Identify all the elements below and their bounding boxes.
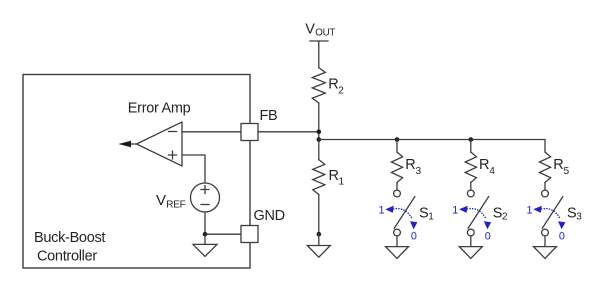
node bus junction: [317, 137, 322, 142]
wire S3 to ground: [544, 236, 546, 247]
wire R2 to FB node: [318, 103, 320, 160]
svg-text:S: S: [567, 205, 576, 221]
ground under S3: [534, 247, 557, 259]
voltage source VREF: [191, 183, 220, 212]
node branch R3: [395, 137, 400, 142]
pin FB: [241, 124, 258, 141]
pin GND: [241, 226, 258, 243]
op-amp output arrow: [127, 143, 137, 145]
svg-text:3: 3: [416, 166, 422, 177]
switch S3 throw arc: [542, 209, 561, 220]
wire S2 to ground: [470, 236, 472, 247]
resistor R4: [465, 152, 476, 183]
wire bus to R4: [470, 140, 472, 153]
svg-text:1: 1: [339, 177, 345, 188]
svg-text:V: V: [156, 192, 166, 209]
wire R4 to switch S2: [470, 183, 472, 191]
switch S2 throw arc: [467, 209, 486, 220]
svg-text:2: 2: [502, 212, 508, 223]
switch S1: [394, 190, 401, 197]
wire VREF to GND node: [205, 212, 241, 234]
svg-text:R: R: [479, 157, 489, 173]
svg-text:1: 1: [452, 204, 458, 216]
ground under S1: [386, 247, 409, 259]
svg-text:S: S: [419, 205, 428, 221]
svg-text:R: R: [329, 168, 339, 184]
svg-text:R: R: [328, 77, 338, 93]
op-amp U1 Error Amp: [137, 122, 183, 166]
svg-text:R: R: [553, 157, 563, 173]
svg-text:V: V: [305, 21, 315, 37]
switch S2 position 0 arrow: [484, 221, 491, 229]
svg-text:Error Amp: Error Amp: [128, 101, 191, 117]
switch S2 position 1 arrow: [459, 206, 468, 213]
resistor R5: [539, 152, 550, 183]
svg-text:1: 1: [428, 212, 434, 223]
resistor R2: [312, 68, 325, 103]
svg-text:S: S: [493, 205, 502, 221]
svg-text:1: 1: [379, 204, 385, 216]
svg-text:REF: REF: [166, 199, 185, 210]
svg-text:R: R: [405, 157, 415, 173]
wire VOUT to R2: [318, 41, 320, 68]
svg-text:Buck-Boost: Buck-Boost: [34, 230, 105, 246]
wire R1 to ground node: [318, 195, 320, 235]
wire bus to R3: [396, 140, 398, 153]
svg-text:3: 3: [576, 212, 582, 223]
svg-text:Controller: Controller: [37, 249, 97, 265]
wire R3 to switch S1: [396, 183, 398, 191]
svg-text:2: 2: [338, 86, 344, 97]
node branch R4: [469, 137, 474, 142]
svg-text:FB: FB: [260, 108, 278, 124]
node FB junction: [317, 130, 322, 135]
resistor R1: [313, 160, 325, 195]
svg-text:5: 5: [564, 166, 570, 177]
node VREF ground junction: [203, 232, 208, 237]
ground under VREF: [204, 234, 206, 245]
svg-text:4: 4: [489, 166, 495, 177]
switch S3 position 1 arrow: [533, 206, 542, 213]
svg-text:0: 0: [485, 230, 491, 242]
wire op-amp minus input to FB pin: [182, 131, 241, 133]
switch S1 throw arc: [394, 209, 413, 220]
node R1 ground junction: [317, 232, 322, 237]
switch S2: [467, 190, 474, 197]
wire feedback bus: [319, 140, 545, 153]
ground under R1: [318, 234, 320, 245]
resistor R3: [391, 152, 402, 183]
svg-text:0: 0: [559, 230, 565, 242]
Buck-Boost Controller box: [23, 75, 250, 269]
svg-text:OUT: OUT: [315, 28, 335, 39]
wire FB pin to node: [258, 131, 319, 133]
wire R5 to switch S3: [544, 183, 546, 191]
svg-text:1: 1: [527, 204, 533, 216]
svg-text:0: 0: [411, 230, 417, 242]
switch S3 position 0 arrow: [558, 221, 565, 229]
switch S3: [542, 190, 549, 197]
switch S1 position 0 arrow: [410, 221, 417, 229]
wire op-amp plus input to VREF: [182, 155, 205, 183]
svg-text:GND: GND: [254, 208, 285, 224]
ground under S2: [459, 247, 482, 259]
switch S1 position 1 arrow: [385, 206, 394, 213]
wire S1 to ground: [396, 236, 398, 247]
